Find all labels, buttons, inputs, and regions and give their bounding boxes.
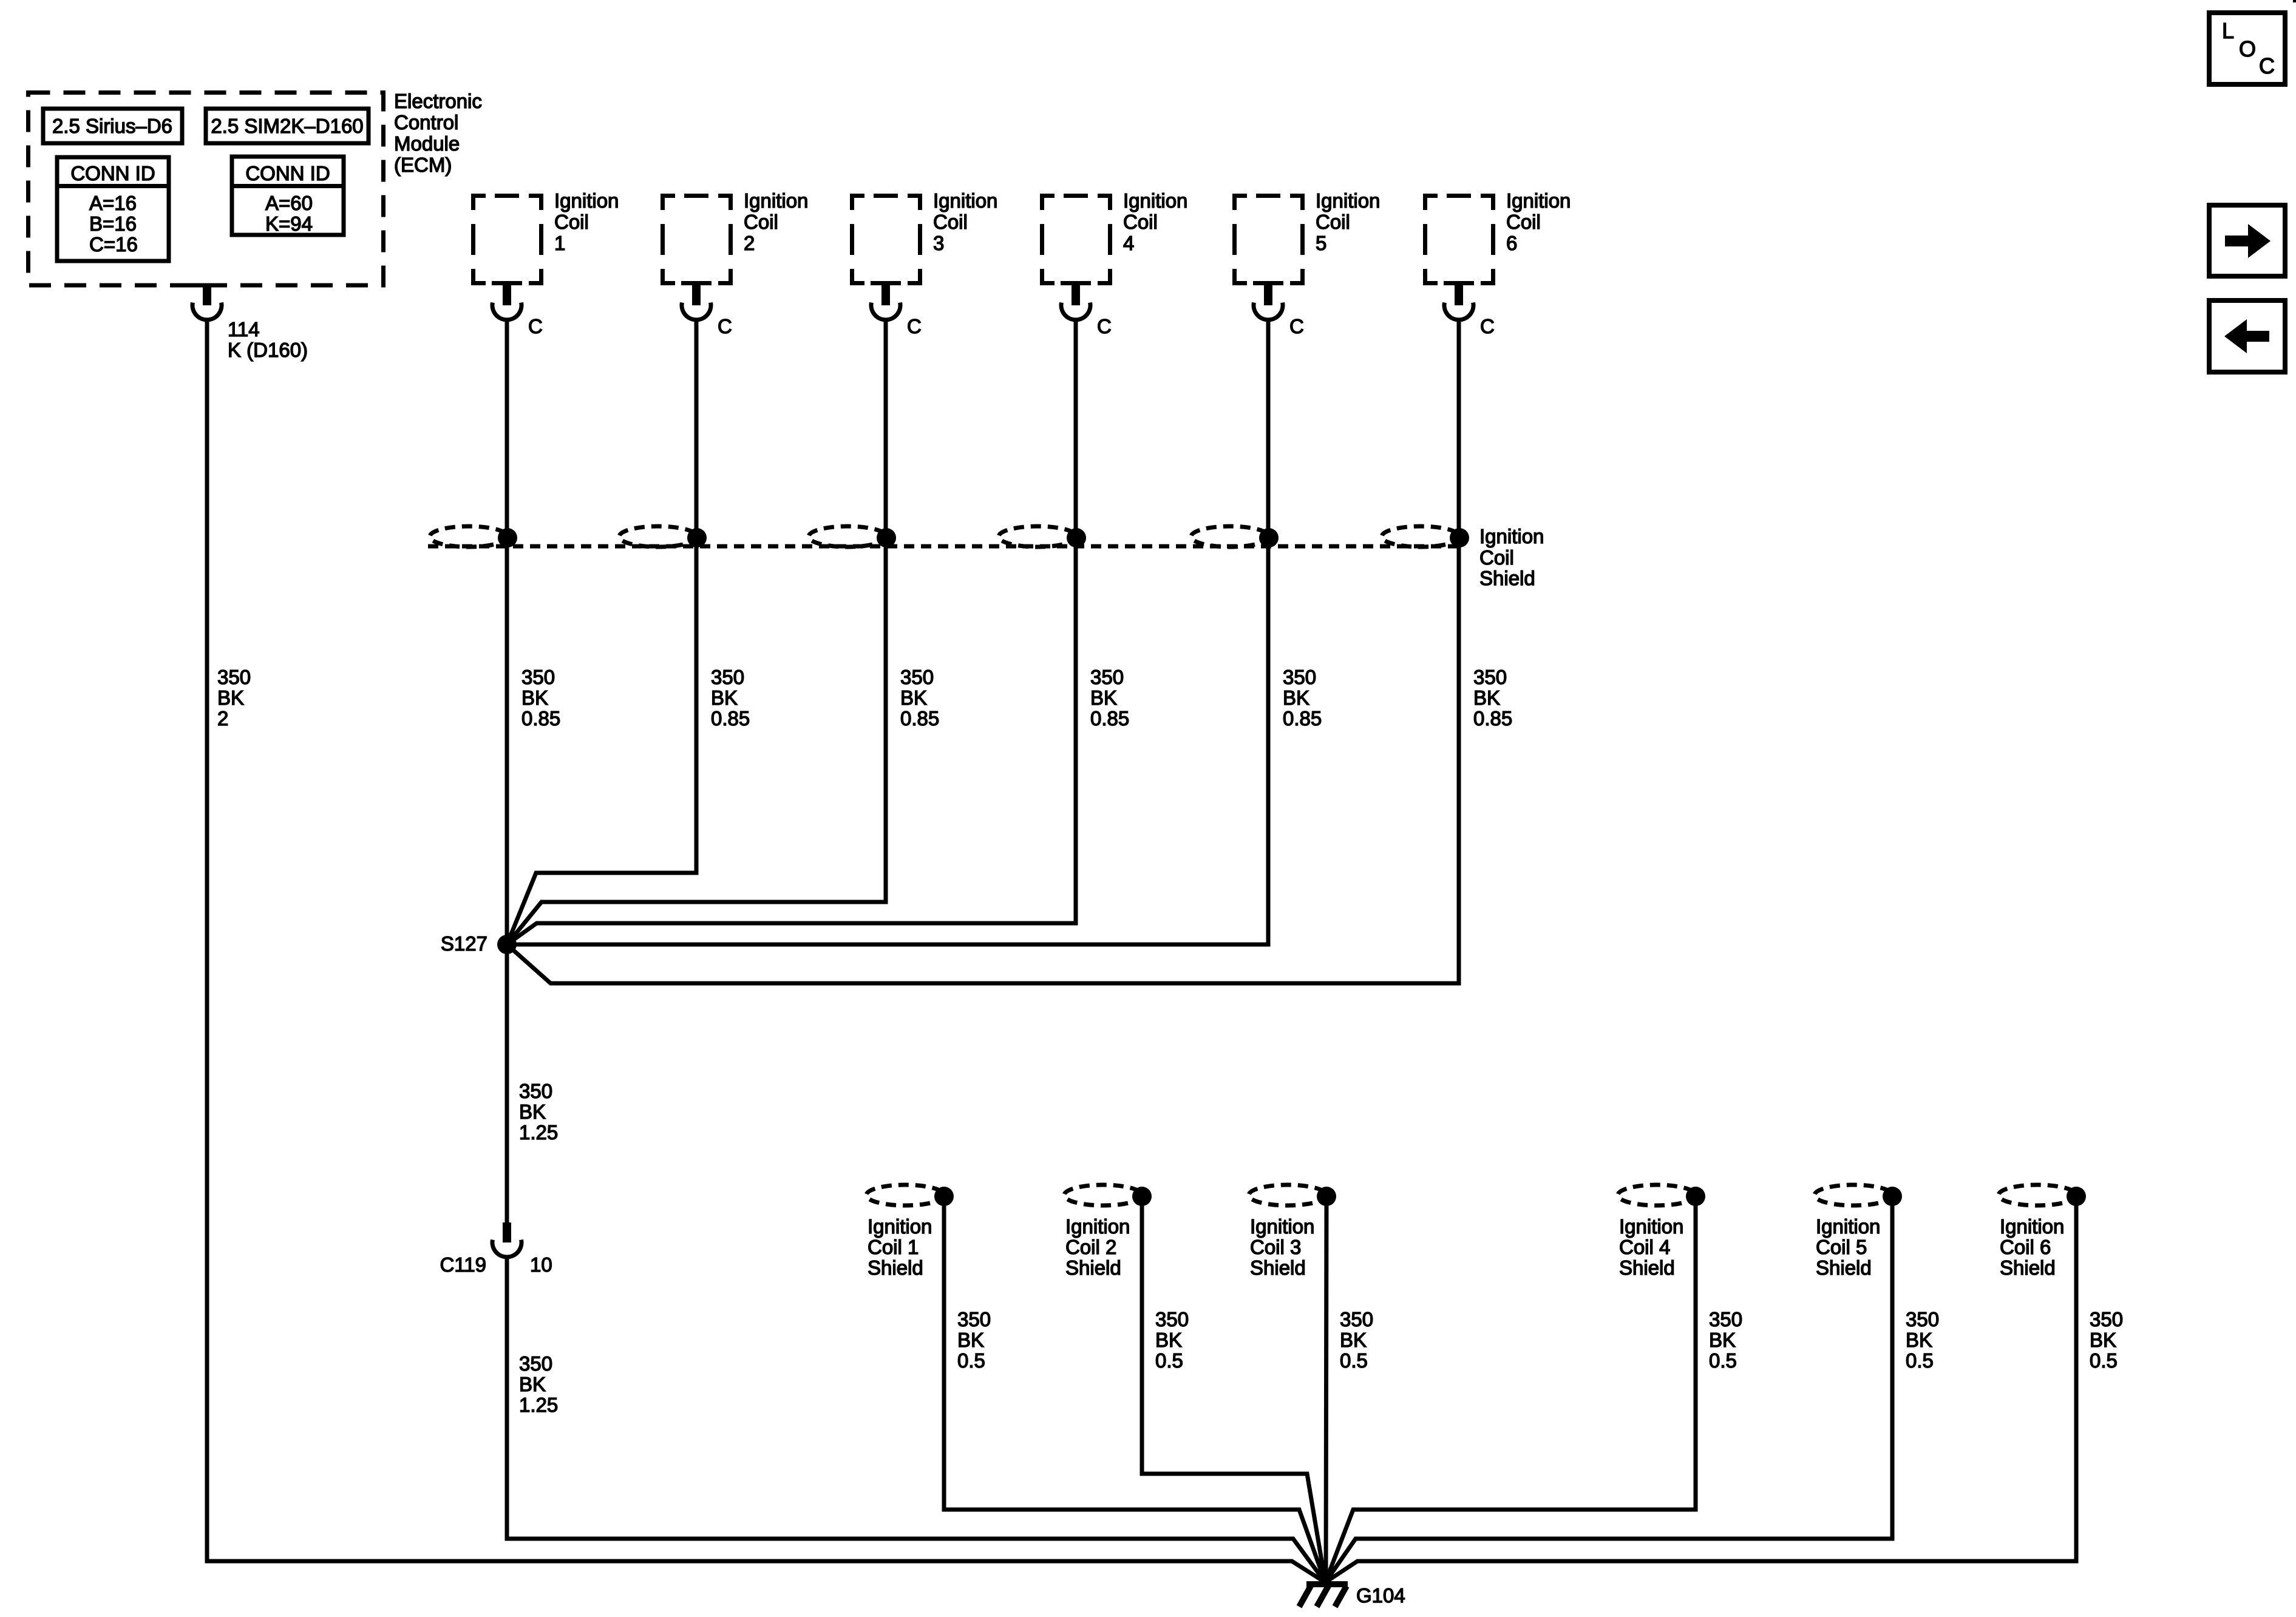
svg-text:BK: BK — [217, 686, 244, 709]
svg-text:K (D160): K (D160) — [228, 339, 308, 361]
connector C119 — [492, 1222, 521, 1257]
ignition coil 1 connector box — [471, 194, 543, 285]
svg-text:3: 3 — [933, 232, 944, 254]
wire below C119 — [507, 1256, 1325, 1582]
svg-text:0.85: 0.85 — [1473, 707, 1512, 730]
svg-text:Ignition: Ignition — [554, 189, 619, 212]
wire shield 2 to G104 — [1142, 1196, 1325, 1582]
svg-text:Control: Control — [394, 111, 458, 134]
svg-text:S127: S127 — [441, 932, 487, 955]
wire coil 5 down to S127 — [507, 320, 1268, 944]
arrow left box — [2209, 300, 2285, 372]
svg-text:6: 6 — [1506, 232, 1517, 254]
wire label 350 BK 0.5 shield 3 — [1340, 1308, 1373, 1372]
svg-text:Ignition: Ignition — [1816, 1215, 1880, 1238]
wire label 350 BK 0.85 coil 1 — [521, 666, 560, 730]
svg-text:C: C — [1097, 315, 1112, 337]
svg-text:350: 350 — [1155, 1308, 1189, 1331]
LOC box — [2209, 13, 2285, 84]
svg-text:Coil: Coil — [1479, 546, 1514, 569]
wire label 350 BK 1.25 (above C119) — [519, 1080, 558, 1144]
svg-text:1.25: 1.25 — [519, 1394, 558, 1416]
shield loop + junction dot coil 4 — [999, 526, 1086, 547]
svg-text:C: C — [1480, 315, 1495, 337]
ignition coil 4 connector pin — [1061, 285, 1090, 320]
svg-text:C: C — [907, 315, 922, 337]
svg-text:2: 2 — [744, 232, 755, 254]
svg-text:C: C — [718, 315, 732, 337]
arrow right box — [2209, 205, 2285, 276]
svg-text:BK: BK — [1090, 686, 1117, 709]
ignition coil 3 shield loop + junction — [1249, 1185, 1336, 1206]
box 2.5 SIM2K-D160 — [206, 109, 369, 143]
wire label 350 BK 0.5 shield 1 — [957, 1308, 991, 1372]
ignition coil 1 shield loop + junction — [866, 1185, 954, 1206]
wire label 350 BK 1.25 (below C119) — [519, 1352, 558, 1416]
ignition coil 4 shield loop + junction — [1618, 1185, 1705, 1206]
svg-text:Ignition: Ignition — [1250, 1215, 1314, 1238]
svg-text:C: C — [1289, 315, 1304, 337]
svg-text:0.5: 0.5 — [1340, 1349, 1368, 1372]
svg-text:C: C — [2259, 53, 2275, 78]
splice S127 junction dot — [497, 935, 517, 954]
svg-text:0.5: 0.5 — [957, 1349, 985, 1372]
svg-text:Ignition: Ignition — [1316, 189, 1380, 212]
svg-text:Coil: Coil — [744, 211, 778, 233]
svg-text:10: 10 — [530, 1253, 552, 1276]
label Ignition Coil 2 — [744, 189, 808, 254]
svg-text:B=16: B=16 — [89, 212, 137, 235]
page corner tick — [2293, 0, 2296, 2]
svg-text:4: 4 — [1123, 232, 1134, 254]
svg-text:Ignition: Ignition — [933, 189, 997, 212]
svg-text:350: 350 — [1283, 666, 1316, 688]
svg-text:Ignition: Ignition — [1506, 189, 1571, 212]
svg-text:O: O — [2239, 36, 2256, 61]
label Ignition Coil Shield — [1479, 525, 1544, 589]
svg-text:Shield: Shield — [868, 1256, 923, 1279]
ignition coil 2 shield loop + junction — [1064, 1185, 1152, 1206]
svg-text:BK: BK — [711, 686, 738, 709]
svg-text:BK: BK — [1340, 1329, 1367, 1351]
svg-text:Coil: Coil — [1506, 211, 1541, 233]
svg-text:Shield: Shield — [1619, 1256, 1675, 1279]
svg-text:0.5: 0.5 — [2090, 1349, 2118, 1372]
shield loop + junction dot coil 5 — [1191, 526, 1279, 547]
label Ignition Coil 6 Shield — [2000, 1215, 2064, 1279]
svg-text:350: 350 — [1090, 666, 1124, 688]
svg-text:L: L — [2222, 18, 2234, 43]
svg-text:350: 350 — [1709, 1308, 1742, 1331]
svg-text:350: 350 — [1340, 1308, 1373, 1331]
label Electronic Control Module (ECM) — [394, 90, 482, 176]
svg-text:350: 350 — [900, 666, 934, 688]
svg-text:Coil: Coil — [1316, 211, 1350, 233]
svg-text:Coil 4: Coil 4 — [1619, 1236, 1670, 1258]
svg-text:BK: BK — [2090, 1329, 2116, 1351]
svg-text:350: 350 — [711, 666, 744, 688]
wire shield 6 to G104 — [1325, 1196, 2076, 1582]
ignition coil 1 connector pin — [492, 285, 521, 320]
svg-text:2.5 Sirius–D6: 2.5 Sirius–D6 — [52, 115, 172, 137]
ignition coil shield dashed bus — [428, 544, 1461, 549]
shield loop + junction dot coil 2 — [619, 526, 707, 547]
label Ignition Coil 4 — [1123, 189, 1187, 254]
svg-text:Coil 2: Coil 2 — [1065, 1236, 1116, 1258]
svg-text:BK: BK — [1283, 686, 1309, 709]
svg-text:Coil 6: Coil 6 — [2000, 1236, 2051, 1258]
svg-text:CONN ID: CONN ID — [70, 162, 155, 185]
wire label 350 BK 0.85 coil 3 — [900, 666, 939, 730]
wire label 350 BK 0.5 shield 4 — [1709, 1308, 1742, 1372]
wire coil 4 down to S127 — [507, 320, 1076, 944]
svg-text:Electronic: Electronic — [394, 90, 482, 112]
label Ignition Coil 2 Shield — [1065, 1215, 1130, 1279]
svg-text:BK: BK — [1906, 1329, 1932, 1351]
ignition coil 5 connector pin — [1254, 285, 1283, 320]
svg-text:Coil: Coil — [933, 211, 968, 233]
label Ignition Coil 1 Shield — [868, 1215, 932, 1279]
svg-text:2: 2 — [217, 707, 228, 730]
svg-text:0.85: 0.85 — [711, 707, 750, 730]
svg-text:BK: BK — [1155, 1329, 1182, 1351]
svg-text:BK: BK — [519, 1100, 546, 1123]
wire label 350 BK 0.85 coil 2 — [711, 666, 750, 730]
svg-text:0.85: 0.85 — [521, 707, 560, 730]
wire shield 1 to G104 — [944, 1196, 1325, 1582]
svg-text:Shield: Shield — [1065, 1256, 1121, 1279]
ignition coil 5 shield loop + junction — [1815, 1185, 1902, 1206]
wire shield 5 to G104 — [1325, 1196, 1892, 1582]
ignition coil 6 shield loop + junction — [1999, 1185, 2086, 1206]
svg-text:Ignition: Ignition — [1619, 1215, 1683, 1238]
svg-text:Coil: Coil — [1123, 211, 1158, 233]
wire coil 2 down to S127 — [507, 320, 696, 944]
ground symbol G104 — [1299, 1584, 1348, 1607]
label Ignition Coil 3 Shield — [1250, 1215, 1314, 1279]
svg-text:C: C — [528, 315, 543, 337]
wire coil 3 down to S127 — [507, 320, 886, 944]
wire from ECM pin down to bottom rail — [207, 320, 1325, 1582]
shield loop + junction dot coil 3 — [809, 526, 896, 547]
svg-text:1: 1 — [554, 232, 565, 254]
svg-text:5: 5 — [1316, 232, 1326, 254]
ignition coil 4 connector box — [1040, 194, 1112, 285]
svg-text:K=94: K=94 — [265, 212, 313, 235]
svg-text:Coil: Coil — [554, 211, 589, 233]
wire label 350 BK 0.5 shield 2 — [1155, 1308, 1189, 1372]
svg-text:0.85: 0.85 — [1283, 707, 1322, 730]
CONN ID table 1 — [57, 157, 169, 261]
label 350 BK 2 — [217, 666, 251, 730]
svg-text:Shield: Shield — [1250, 1256, 1306, 1279]
wire shield 3 to G104 — [1326, 1196, 1326, 1583]
svg-text:350: 350 — [957, 1308, 991, 1331]
svg-text:Shield: Shield — [2000, 1256, 2056, 1279]
svg-text:0.5: 0.5 — [1709, 1349, 1737, 1372]
svg-text:350: 350 — [1473, 666, 1507, 688]
svg-text:Module: Module — [394, 132, 460, 155]
wire label 350 BK 0.85 coil 5 — [1283, 666, 1322, 730]
ignition coil 6 connector pin — [1444, 285, 1473, 320]
ignition coil 2 connector box — [661, 194, 733, 285]
svg-text:A=16: A=16 — [89, 192, 137, 214]
svg-text:BK: BK — [521, 686, 548, 709]
svg-text:0.5: 0.5 — [1906, 1349, 1934, 1372]
svg-text:BK: BK — [957, 1329, 984, 1351]
wire label 350 BK 0.85 coil 4 — [1090, 666, 1129, 730]
svg-text:Ignition: Ignition — [1065, 1215, 1130, 1238]
svg-text:BK: BK — [1473, 686, 1500, 709]
ECM dashed module box — [29, 93, 384, 286]
ignition coil 5 connector box — [1232, 194, 1305, 285]
box 2.5 Sirius-D6 — [43, 109, 182, 143]
wire label 350 BK 0.85 coil 6 — [1473, 666, 1512, 730]
svg-text:0.85: 0.85 — [1090, 707, 1129, 730]
label Ignition Coil 6 — [1506, 189, 1571, 254]
svg-text:Coil 1: Coil 1 — [868, 1236, 919, 1258]
svg-text:350: 350 — [519, 1352, 552, 1375]
svg-text:Ignition: Ignition — [744, 189, 808, 212]
svg-text:Shield: Shield — [1816, 1256, 1872, 1279]
svg-text:2.5 SIM2K–D160: 2.5 SIM2K–D160 — [211, 115, 363, 137]
svg-text:A=60: A=60 — [265, 192, 313, 214]
svg-text:BK: BK — [900, 686, 927, 709]
svg-text:C=16: C=16 — [89, 233, 138, 256]
svg-text:BK: BK — [1709, 1329, 1736, 1351]
svg-text:0.5: 0.5 — [1155, 1349, 1183, 1372]
svg-text:350: 350 — [521, 666, 555, 688]
svg-text:350: 350 — [217, 666, 251, 688]
svg-text:Ignition: Ignition — [1123, 189, 1187, 212]
ignition coil 3 connector box — [850, 194, 922, 285]
wire coil 1 upper segment — [505, 320, 509, 1222]
svg-text:Coil 3: Coil 3 — [1250, 1236, 1301, 1258]
svg-text:Shield: Shield — [1479, 567, 1535, 589]
shield loop + junction dot coil 6 — [1382, 526, 1469, 547]
svg-text:Ignition: Ignition — [1479, 525, 1544, 547]
ignition coil 6 connector box — [1423, 194, 1495, 285]
wire shield 4 to G104 — [1325, 1196, 1696, 1582]
svg-text:C119: C119 — [440, 1253, 486, 1276]
svg-text:CONN ID: CONN ID — [245, 162, 330, 185]
svg-text:1.25: 1.25 — [519, 1121, 558, 1144]
svg-text:Ignition: Ignition — [868, 1215, 932, 1238]
svg-text:G104: G104 — [1356, 1584, 1405, 1607]
ignition coil 3 connector pin — [871, 285, 900, 320]
label Ignition Coil 5 Shield — [1816, 1215, 1880, 1279]
svg-text:(ECM): (ECM) — [394, 154, 452, 176]
svg-text:350: 350 — [519, 1080, 552, 1102]
label Ignition Coil 5 — [1316, 189, 1380, 254]
svg-text:114: 114 — [228, 318, 260, 341]
wire label 350 BK 0.5 shield 6 — [2090, 1308, 2123, 1372]
pin label 114 K (D160) — [228, 318, 308, 361]
shield loop + junction dot coil 1 — [430, 526, 517, 547]
ECM connector pin — [192, 283, 222, 288]
svg-text:350: 350 — [1906, 1308, 1939, 1331]
CONN ID table 2 — [232, 157, 344, 235]
wire coil 6 down to S127 — [507, 320, 1459, 983]
svg-text:350: 350 — [2090, 1308, 2123, 1331]
ignition coil 2 connector pin — [682, 285, 711, 320]
label Ignition Coil 4 Shield — [1619, 1215, 1683, 1279]
svg-text:Ignition: Ignition — [2000, 1215, 2064, 1238]
label Ignition Coil 3 — [933, 189, 997, 254]
svg-text:Coil 5: Coil 5 — [1816, 1236, 1867, 1258]
wire label 350 BK 0.5 shield 5 — [1906, 1308, 1939, 1372]
svg-text:BK: BK — [519, 1373, 546, 1395]
svg-text:0.85: 0.85 — [900, 707, 939, 730]
label Ignition Coil 1 — [554, 189, 619, 254]
